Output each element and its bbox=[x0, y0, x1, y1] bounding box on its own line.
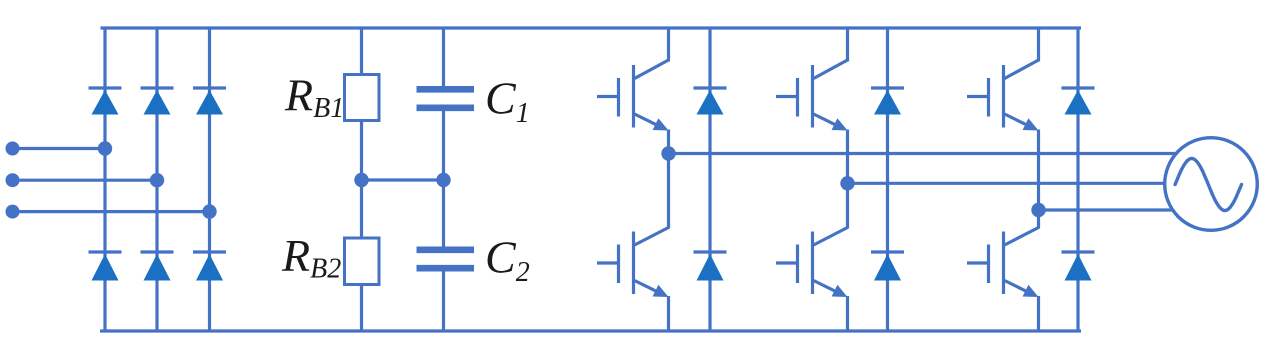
diode D6 (rectifier bottom) bbox=[193, 252, 226, 281]
transistor Q2 (IGBT, leg 1 bottom) bbox=[597, 228, 669, 298]
svg-text:RB2: RB2 bbox=[281, 230, 341, 285]
diode D7 (freewheel, leg 1 top) bbox=[694, 88, 727, 115]
transistor Q4 (IGBT, leg 2 bottom) bbox=[776, 228, 848, 298]
diode D1 (rectifier top) bbox=[89, 88, 122, 115]
wire leg 1 emitter to bottom rail bbox=[667, 296, 670, 331]
capacitor C2 bbox=[417, 250, 475, 268]
diode D3 (rectifier top) bbox=[193, 88, 226, 115]
svg-text:C1: C1 bbox=[485, 73, 530, 130]
wire C leg lower segment bbox=[442, 272, 445, 332]
svg-text:RB1: RB1 bbox=[284, 70, 344, 125]
AC source sine wave bbox=[1175, 159, 1241, 211]
wire freewheel diode leg 1 vertical bbox=[708, 28, 711, 331]
wire AC input phase C bbox=[13, 210, 210, 213]
transistor Q5 (IGBT, leg 3 top) bbox=[967, 28, 1039, 131]
wire leg 2 mid vertical bbox=[846, 130, 849, 229]
wire top DC bus rail bbox=[101, 26, 1082, 29]
wire leg 1 mid vertical bbox=[667, 130, 670, 229]
terminal dot phase A input bbox=[6, 142, 20, 156]
transistor Q1 (IGBT, leg 1 top) bbox=[597, 28, 669, 131]
wire C leg upper segment bbox=[442, 28, 445, 87]
node DC midpoint at RB leg bbox=[354, 173, 368, 187]
wire output phase A to AC source bbox=[669, 152, 1212, 155]
resistor RB1 bbox=[345, 75, 380, 121]
diode D12 (freewheel, leg 3 bottom) bbox=[1062, 252, 1095, 281]
wire AC input phase B bbox=[13, 179, 158, 182]
wire rectifier leg 1 vertical bbox=[103, 28, 106, 331]
wire freewheel diode leg 2 vertical bbox=[886, 28, 889, 331]
svg-text:C2: C2 bbox=[485, 232, 530, 289]
transistor Q3 (IGBT, leg 2 top) bbox=[776, 28, 848, 131]
diode D5 (rectifier bottom) bbox=[141, 252, 174, 281]
node output phase A bbox=[661, 146, 675, 160]
terminal dot phase C input bbox=[6, 205, 20, 219]
wire rectifier leg 3 vertical bbox=[208, 28, 211, 331]
diode D9 (freewheel, leg 2 top) bbox=[871, 88, 904, 115]
diode D8 (freewheel, leg 1 bottom) bbox=[694, 252, 727, 281]
transistor Q6 (IGBT, leg 3 bottom) bbox=[967, 228, 1039, 298]
node phase B junction on rectifier leg bbox=[150, 173, 164, 187]
wire leg 3 mid vertical bbox=[1037, 130, 1040, 229]
node phase A junction on rectifier leg bbox=[98, 141, 112, 155]
diode D11 (freewheel, leg 3 top) bbox=[1062, 88, 1095, 115]
diode D2 (rectifier top) bbox=[141, 88, 174, 115]
node output phase B bbox=[840, 176, 854, 190]
wire freewheel diode leg 3 vertical bbox=[1076, 28, 1079, 331]
wire output phase C to AC source bbox=[1039, 208, 1212, 211]
AC source circle bbox=[1165, 138, 1258, 231]
node phase C junction on rectifier leg bbox=[202, 204, 216, 218]
wire C leg middle segment bbox=[442, 111, 445, 247]
node output phase C bbox=[1031, 203, 1045, 217]
wire leg 3 emitter to bottom rail bbox=[1037, 296, 1040, 331]
wire DC midpoint connector bbox=[362, 178, 444, 181]
terminal dot phase B input bbox=[6, 173, 20, 187]
wire leg 2 emitter to bottom rail bbox=[846, 296, 849, 331]
wire rectifier leg 2 vertical bbox=[155, 28, 158, 331]
wire bottom DC bus rail bbox=[100, 329, 1081, 332]
node DC midpoint at C leg bbox=[436, 173, 450, 187]
wire RB leg middle segment bbox=[360, 121, 363, 239]
wire RB leg upper segment bbox=[360, 28, 363, 75]
capacitor C1 bbox=[417, 89, 475, 108]
wire output phase B to AC source bbox=[848, 182, 1212, 185]
wire AC input phase A bbox=[13, 147, 106, 150]
diode D4 (rectifier bottom) bbox=[89, 252, 122, 281]
wire RB leg lower segment bbox=[360, 285, 363, 332]
diode D10 (freewheel, leg 2 bottom) bbox=[871, 252, 904, 281]
resistor RB2 bbox=[345, 238, 380, 285]
